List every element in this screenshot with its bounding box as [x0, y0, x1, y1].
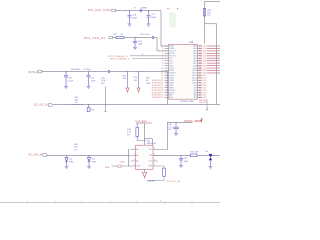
capacitor C26 [129, 11, 131, 16]
svg-text:I2C_SCL_M: I2C_SCL_M [34, 105, 48, 107]
resistor R48 [163, 168, 166, 176]
pin L15 [165, 79, 169, 81]
svg-text:EGPIO21: EGPIO21 [152, 97, 161, 99]
capacitor C27 [148, 11, 150, 16]
pin R22 [198, 96, 202, 98]
capacitor C40 [175, 123, 177, 127]
pin U11-L3 [131, 160, 136, 162]
wire corner down to rail [167, 72, 169, 105]
svg-text:10uF: 10uF [91, 80, 96, 82]
ground [87, 85, 91, 87]
wire [207, 52, 220, 54]
svg-text:A1: A1 [136, 154, 138, 157]
diode D3 [88, 156, 90, 158]
shading block [169, 13, 176, 28]
wire [112, 165, 118, 167]
svg-text:2: 2 [134, 154, 135, 156]
pin U11-R1 [153, 149, 158, 151]
pin R19 [198, 89, 202, 91]
capacitor C30 [65, 72, 67, 76]
svg-text:18pF: 18pF [151, 17, 156, 19]
svg-text:5%: 5% [75, 102, 78, 104]
svg-text:ESD: ESD [92, 161, 97, 163]
wire net PCI_GNT [132, 57, 169, 59]
wire [113, 37, 117, 39]
no-connect [206, 99, 208, 108]
ground [65, 165, 69, 167]
svg-text:4.7K: 4.7K [127, 132, 132, 134]
svg-text:R48 2K2: R48 2K2 [147, 181, 156, 183]
svg-text:PCI_GNT0_L: PCI_GNT0_L [110, 59, 131, 61]
svg-text:ESD: ESD [70, 161, 75, 163]
wire [158, 165, 164, 167]
pin R11 [198, 70, 202, 72]
svg-text:SDA: SDA [105, 166, 110, 169]
wire top [205, 1, 221, 3]
svg-text:5%: 5% [127, 134, 130, 136]
op IC U10 body [169, 44, 198, 99]
node J6 [127, 71, 128, 72]
svg-text:SCL: SCL [149, 161, 153, 163]
pin R9 [198, 65, 202, 67]
wire [197, 155, 220, 157]
ground [174, 132, 178, 134]
wire [207, 62, 220, 64]
node J5 [88, 71, 89, 72]
svg-text:1%: 1% [74, 149, 77, 151]
svg-text:6: 6 [154, 160, 155, 162]
pin R1 [198, 45, 202, 47]
svg-text:3: 3 [134, 160, 135, 162]
port connector P5 [43, 154, 47, 157]
svg-text:22uF: 22uF [101, 80, 106, 82]
wire [207, 47, 220, 49]
capacitor C41 [180, 156, 182, 159]
svg-text:I2C_SDA_M: I2C_SDA_M [28, 154, 42, 157]
wire corner to U10 pin1 [160, 11, 162, 47]
wire [207, 67, 220, 69]
wire [207, 65, 220, 67]
resistor R14 pulldown [138, 72, 140, 89]
pin R10 [198, 67, 202, 69]
wire tie verticals [128, 150, 130, 167]
node J11 [181, 155, 182, 156]
wire [207, 57, 220, 59]
wire [42, 71, 109, 73]
ground [87, 165, 91, 167]
svg-text:22: 22 [161, 97, 163, 99]
wire [124, 37, 152, 39]
wire net PCI_REQ [130, 55, 169, 57]
ground arrow [137, 88, 140, 92]
pin R20 [198, 92, 202, 94]
resistor R45 [203, 9, 205, 17]
capacitor C31 [88, 72, 90, 76]
pin R16 [198, 82, 202, 84]
wire [207, 60, 220, 62]
pin L17 [165, 84, 169, 86]
svg-text:PCI_CLK_XTALI: PCI_CLK_XTALI [88, 9, 111, 12]
wire down to U11 pin8 [167, 123, 169, 150]
tick [142, 53, 144, 55]
capacitor C32 series [107, 70, 109, 73]
node J2 [148, 10, 149, 11]
svg-text:10pF: 10pF [138, 44, 143, 46]
power rail [168, 122, 193, 124]
capacitor C28 [134, 38, 136, 42]
pin U11-L2 [131, 155, 136, 157]
pin R13 [198, 74, 202, 76]
svg-text:8: 8 [154, 148, 155, 150]
component R17 [88, 105, 90, 108]
svg-text:USB_DP1: USB_DP1 [199, 102, 207, 104]
svg-text:R47 22R: R47 22R [191, 151, 199, 153]
resistor R13 pulldown [127, 72, 129, 89]
node J8 [88, 104, 89, 105]
ground [133, 46, 137, 48]
pin R21 [198, 94, 202, 96]
pin L7 [165, 60, 169, 62]
port connector P4 [48, 104, 52, 107]
svg-text:L2 10uH: L2 10uH [83, 69, 91, 71]
pin L13 [165, 74, 169, 76]
svg-text:4: 4 [134, 165, 135, 167]
pin L2 [165, 47, 169, 49]
pin R15 [198, 79, 202, 81]
ground [179, 164, 183, 166]
IC U11 body [136, 145, 154, 169]
pin R4 [198, 52, 202, 54]
pin L4 [165, 52, 169, 54]
TVS diode D4 [210, 155, 211, 156]
sheet border line [0, 201, 220, 203]
ground arrow [126, 88, 129, 92]
pin L11 [165, 70, 169, 72]
pin U11-R3 [153, 160, 158, 162]
capacitor C25 series [151, 36, 153, 39]
pin R6 [198, 57, 202, 59]
svg-text:TP3: TP3 [167, 8, 170, 10]
pin U11-L1 [131, 149, 136, 151]
svg-text:A2: A2 [136, 160, 138, 163]
pin L3 [165, 50, 169, 52]
pin R14 [198, 77, 202, 79]
pin R5 [198, 55, 202, 57]
pin L10 [165, 67, 169, 69]
port connector P2 [109, 36, 113, 39]
node J4 [66, 71, 67, 72]
ground [64, 85, 68, 87]
power rail [136, 122, 152, 124]
capacitor C24 series [139, 9, 141, 12]
test point TP5 [118, 165, 122, 167]
node J1 [129, 10, 130, 11]
pin L6 [165, 57, 169, 59]
ground [209, 166, 213, 168]
resistor R12 [116, 36, 124, 38]
node J10 [89, 155, 90, 156]
diode D2 [66, 156, 68, 158]
port connector P1 [112, 9, 116, 12]
svg-text:A0: A0 [136, 148, 138, 151]
svg-text:GND: GND [136, 166, 141, 168]
ground [128, 23, 132, 25]
port connector P3 [38, 70, 42, 73]
wire [46, 155, 130, 157]
pin L9 [165, 65, 169, 67]
top pin wires [145, 138, 153, 140]
wire [207, 50, 220, 52]
svg-text:33pF: 33pF [184, 161, 189, 163]
wire [153, 155, 190, 157]
node J7 [138, 71, 139, 72]
pin R12 [198, 72, 202, 74]
pin R2 [198, 47, 202, 49]
pin U11-R2 [153, 155, 158, 157]
wire [110, 71, 168, 73]
pin L21 [165, 94, 169, 96]
pin L16 [165, 82, 169, 84]
wire corner to U10 pin3 [154, 37, 157, 39]
pin L19 [165, 89, 169, 91]
wire branch [205, 23, 217, 25]
node J9 [66, 155, 67, 156]
svg-text:18pF: 18pF [132, 17, 137, 19]
wire [115, 10, 161, 12]
wire [207, 72, 220, 74]
pin L22 [165, 96, 169, 98]
wire [207, 45, 220, 47]
pin L12 [165, 72, 169, 74]
pin U11-R4 [153, 165, 158, 167]
pin L1 [165, 45, 169, 47]
wire [207, 70, 220, 72]
junction ticks [71, 103, 74, 106]
svg-text:USB_PWR_EN: USB_PWR_EN [28, 72, 38, 74]
svg-text:GND: GND [120, 162, 125, 164]
ground [147, 23, 151, 25]
pin R18 [198, 87, 202, 89]
pin L14 [165, 77, 169, 79]
svg-text:U10: U10 [189, 42, 194, 44]
wire rail [53, 104, 220, 106]
svg-text:EP9307-CRZ: EP9307-CRZ [181, 101, 195, 103]
pin L18 [165, 87, 169, 89]
pin R7 [198, 60, 202, 62]
pin L8 [165, 62, 169, 64]
wire [207, 55, 220, 57]
svg-text:PCI_CLK_IN: PCI_CLK_IN [84, 38, 106, 40]
svg-text:AB_D21: AB_D21 [199, 96, 207, 99]
resistor R44 [136, 123, 138, 128]
node J3 [135, 37, 136, 38]
resistor R47 [190, 154, 197, 157]
svg-text:5: 5 [154, 165, 155, 167]
power arrow [201, 118, 203, 122]
bottom pin + ground arrow [144, 170, 146, 173]
wire [144, 123, 146, 145]
svg-text:DNP: DNP [146, 83, 151, 85]
svg-text:I2C_PULL_SB: I2C_PULL_SB [167, 181, 181, 183]
svg-text:FB1 600R: FB1 600R [71, 69, 81, 71]
pin L5 [165, 55, 169, 57]
svg-text:0.1uF: 0.1uF [68, 80, 74, 82]
pin U11-L4 [131, 165, 136, 167]
wire vertical [105, 87, 107, 112]
svg-text:1%: 1% [207, 15, 210, 17]
svg-text:CAT24C02: CAT24C02 [147, 142, 158, 145]
svg-text:C29 0.1uF: C29 0.1uF [140, 34, 150, 36]
pin L20 [165, 92, 169, 94]
pin R8 [198, 62, 202, 64]
svg-text:1: 1 [134, 148, 135, 150]
pin R3 [198, 50, 202, 52]
svg-text:A21: A21 [194, 96, 197, 99]
pin R17 [198, 84, 202, 86]
